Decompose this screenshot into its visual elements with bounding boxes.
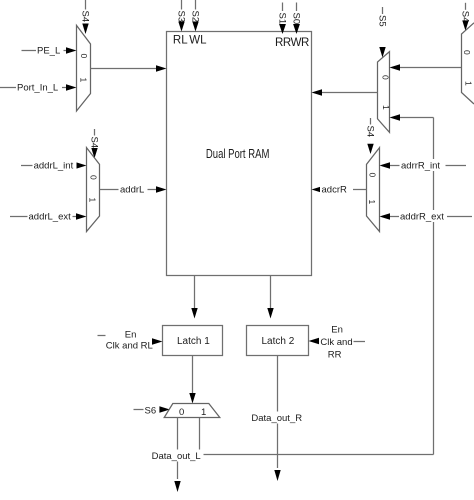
label S6 bbox=[145, 405, 157, 416]
label Data_out_R bbox=[250, 412, 305, 425]
label adrR_ext bbox=[399, 210, 447, 223]
label addrL_ext bbox=[28, 210, 73, 223]
svg-text:S4: S4 bbox=[79, 11, 90, 23]
label addrL_int bbox=[33, 159, 77, 172]
arrow adrR_int into M5 bbox=[380, 162, 391, 168]
mux M1 input label 0 bbox=[79, 54, 89, 59]
svg-text:Data_out_R: Data_out_R bbox=[251, 413, 302, 424]
svg-text:Dual Port RAM: Dual Port RAM bbox=[206, 146, 270, 161]
mux M3 input label 0 bbox=[380, 75, 390, 80]
wire Latch1 to mux M6 bbox=[192, 356, 194, 395]
wire Port_In_L bbox=[0, 87, 67, 89]
select S5 dash bbox=[382, 7, 384, 14]
mux M5 input label 0 bbox=[367, 173, 377, 178]
svg-text:Clk and: Clk and bbox=[320, 337, 352, 348]
mux M6 input label 1 bbox=[201, 407, 206, 418]
arrow adrR_ext into M5 bbox=[380, 213, 391, 219]
wire adrR_ext bbox=[390, 216, 473, 218]
arrow M1 output into RAM bbox=[156, 65, 167, 71]
wire adrR output bbox=[322, 189, 367, 191]
svg-text:S2: S2 bbox=[189, 11, 200, 23]
svg-text:S3: S3 bbox=[175, 11, 186, 23]
wire feedback to M3 input1 bbox=[400, 117, 434, 119]
select S0 label bbox=[290, 13, 301, 25]
mux M5 input label 1 bbox=[367, 200, 377, 205]
wire M3 output to RAM bbox=[322, 92, 378, 94]
wire RAM to Latch2 bbox=[270, 276, 272, 309]
svg-text:1: 1 bbox=[463, 81, 473, 86]
svg-text:addrR_ext: addrR_ext bbox=[400, 212, 444, 223]
arrow into Latch1 bbox=[191, 308, 197, 319]
latch2 En dash bbox=[354, 341, 366, 343]
svg-text:1: 1 bbox=[79, 78, 89, 83]
RAM label bbox=[206, 146, 270, 161]
label addrL bbox=[119, 183, 148, 196]
select S4 arrow bbox=[82, 24, 88, 35]
select S0 arrow bbox=[293, 24, 300, 34]
svg-text:Clk and RL: Clk and RL bbox=[106, 341, 153, 352]
Dual Port RAM block U1 bbox=[167, 32, 312, 276]
svg-text:Latch 2: Latch 2 bbox=[262, 336, 295, 347]
wire feedback right vertical bbox=[433, 118, 435, 455]
arrow Data_out_R bbox=[274, 470, 280, 481]
label PE_L bbox=[36, 44, 64, 57]
wire addrL output bbox=[100, 189, 157, 191]
svg-text:S4: S4 bbox=[364, 126, 375, 138]
select S1 wire bbox=[282, 3, 284, 12]
svg-text:1: 1 bbox=[381, 105, 391, 110]
svg-text:1: 1 bbox=[201, 407, 206, 418]
svg-text:0: 0 bbox=[179, 407, 184, 418]
select S3 wire bbox=[181, 0, 183, 10]
select S4 (left port mux) wire bbox=[85, 0, 87, 10]
arrow En into Latch1 bbox=[152, 338, 163, 344]
svg-text:1: 1 bbox=[367, 200, 377, 205]
label Port_In_L bbox=[16, 81, 62, 94]
select S2 label bbox=[189, 11, 200, 23]
select S4 far-right label bbox=[459, 11, 470, 23]
mux M6 (Data_out_L select) bbox=[164, 404, 220, 418]
label RR (latch2) bbox=[328, 350, 342, 361]
svg-text:0: 0 bbox=[380, 75, 390, 80]
svg-text:S0: S0 bbox=[290, 13, 301, 25]
pin RR bbox=[275, 37, 309, 49]
latch U3 Latch 2 bbox=[247, 326, 309, 356]
select S1 label bbox=[276, 13, 287, 25]
svg-text:0: 0 bbox=[79, 54, 89, 59]
svg-text:En: En bbox=[331, 324, 343, 335]
wire RAM to Latch1 bbox=[194, 276, 196, 309]
mux M3 (port R, S5) bbox=[378, 52, 390, 133]
select S4 (adrR mux) dash bbox=[370, 118, 372, 125]
arrow addrL_int into M2 bbox=[76, 162, 87, 168]
svg-text:S5: S5 bbox=[376, 15, 387, 27]
select S6 dash bbox=[134, 409, 144, 411]
mux M1 (PE_L / Port_In_L) bbox=[77, 25, 91, 111]
svg-text:RR: RR bbox=[328, 350, 342, 361]
svg-text:WL: WL bbox=[189, 35, 207, 47]
select S4 (addrL mux) dash bbox=[94, 129, 96, 136]
svg-text:adrrR_int: adrrR_int bbox=[401, 161, 440, 172]
svg-text:0: 0 bbox=[367, 173, 377, 178]
label Clk and (latch2) bbox=[320, 337, 352, 348]
wire adrR_int bbox=[390, 165, 467, 167]
svg-text:adcrR: adcrR bbox=[322, 185, 347, 196]
select S4 far-right arrow bbox=[462, 21, 468, 31]
arrow Data_out_L bbox=[174, 481, 180, 492]
select S4 (far right mux) dash bbox=[465, 3, 467, 10]
mux M6 input label 0 bbox=[179, 407, 184, 418]
svg-text:S1: S1 bbox=[276, 13, 287, 25]
arrow into Latch2 bbox=[267, 308, 273, 319]
select S4 adrR label bbox=[364, 126, 375, 138]
label Latch 2 bbox=[262, 336, 295, 347]
select S0 wire bbox=[296, 3, 298, 12]
mux M4 input label 0 bbox=[462, 50, 472, 55]
label En (latch2) bbox=[331, 324, 343, 335]
wire M1 output to RAM bbox=[91, 68, 157, 70]
mux M2 input label 0 bbox=[88, 175, 98, 180]
arrow addrL into RAM bbox=[156, 186, 167, 192]
select S2 wire bbox=[195, 0, 197, 10]
svg-text:RL: RL bbox=[173, 35, 188, 47]
arrow adrR into RAM bbox=[312, 186, 323, 192]
wire M4 output to M3 input0 bbox=[400, 67, 462, 69]
wire addrL_int bbox=[21, 165, 77, 167]
svg-text:1: 1 bbox=[87, 198, 97, 203]
select S3 label bbox=[175, 11, 186, 23]
wire Latch2 out Data_out_R bbox=[277, 356, 279, 469]
pin WL bbox=[189, 35, 207, 47]
label adrR_int bbox=[400, 159, 446, 172]
mux M2 input label 1 bbox=[87, 198, 97, 203]
svg-text:Data_out_L: Data_out_L bbox=[152, 451, 201, 462]
wire PE_L bbox=[22, 50, 67, 52]
select S5 arrow bbox=[379, 47, 385, 58]
arrow into M3 input0 bbox=[390, 64, 401, 70]
select S3 arrow bbox=[178, 22, 184, 32]
svg-text:addrL_int: addrL_int bbox=[34, 161, 74, 172]
label Data_out_L bbox=[151, 450, 204, 463]
select S4 adrR arrow bbox=[367, 144, 373, 154]
latch1 En dash bbox=[98, 335, 106, 337]
arrow M3 output into RAM bbox=[312, 89, 323, 95]
arrow addrL_ext into M2 bbox=[76, 213, 87, 219]
select S1 arrow bbox=[279, 24, 286, 34]
select S4 addrL label bbox=[88, 137, 99, 149]
mux M1 input label 1 bbox=[79, 78, 89, 83]
wire addrL_ext bbox=[10, 216, 77, 218]
svg-text:S6: S6 bbox=[145, 405, 157, 416]
svg-text:addrL_ext: addrL_ext bbox=[29, 212, 72, 223]
svg-text:Port_In_L: Port_In_L bbox=[17, 83, 58, 94]
select S4 addrL arrow bbox=[91, 148, 97, 158]
svg-text:0: 0 bbox=[462, 50, 472, 55]
svg-text:0: 0 bbox=[88, 175, 98, 180]
arrow PE_L into M1 bbox=[66, 47, 77, 53]
select S2 arrow bbox=[192, 22, 198, 32]
wire M6 out Data_out_L bbox=[177, 418, 179, 480]
select S4 label bbox=[79, 11, 90, 23]
arrow En into Latch2 bbox=[309, 338, 320, 344]
svg-text:S4: S4 bbox=[88, 137, 99, 149]
svg-text:PE_L: PE_L bbox=[37, 46, 60, 57]
wire M6 input1 down bbox=[199, 418, 201, 455]
arrow Port_In_L into M1 bbox=[66, 84, 77, 90]
mux M2 (addrL) bbox=[87, 148, 100, 232]
svg-text:addrL: addrL bbox=[120, 185, 144, 196]
label Latch 1 bbox=[177, 336, 210, 347]
mux M3 input label 1 bbox=[381, 105, 391, 110]
svg-text:RRWR: RRWR bbox=[275, 37, 309, 49]
arrow into M3 input1 bbox=[390, 114, 401, 120]
select S5 label bbox=[376, 15, 387, 27]
svg-text:Latch 1: Latch 1 bbox=[177, 336, 210, 347]
svg-text:En: En bbox=[125, 330, 137, 341]
arrow into M6 bbox=[189, 393, 195, 404]
wire feedback bottom horizontal bbox=[200, 454, 434, 456]
label En (latch1) bbox=[125, 330, 137, 341]
arrow S6 into M6 bbox=[159, 406, 170, 412]
mux M4 input label 1 bbox=[463, 81, 473, 86]
mux M4 (far right, clipped) bbox=[462, 23, 474, 104]
mux M5 (adrR) bbox=[367, 148, 380, 232]
pin RL bbox=[173, 35, 188, 47]
latch U2 Latch 1 bbox=[163, 326, 223, 356]
label Clk and RL bbox=[106, 341, 153, 352]
label adrR bbox=[320, 183, 353, 196]
